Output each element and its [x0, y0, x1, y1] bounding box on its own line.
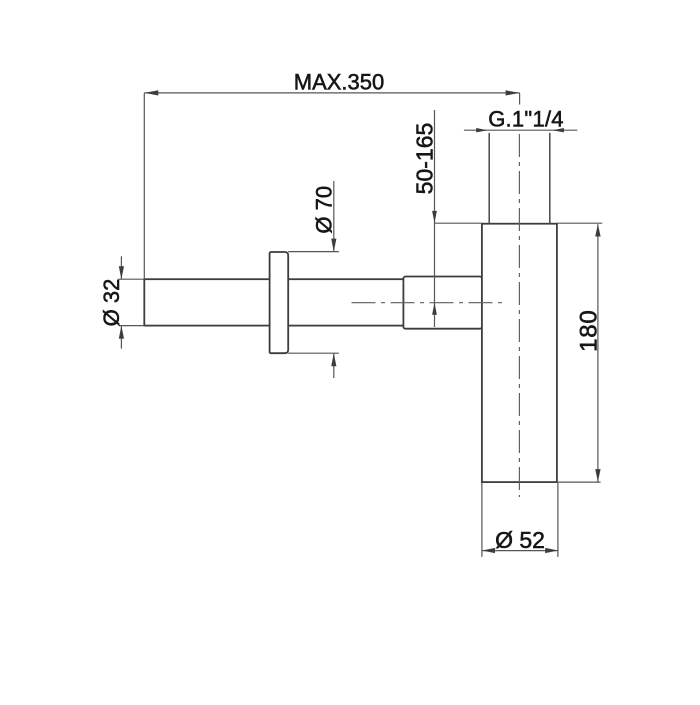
trap body cylinder	[482, 224, 557, 482]
svg-text:Ø 32: Ø 32	[99, 279, 124, 327]
wall flange (escutcheon)	[270, 252, 289, 353]
svg-text:Ø 52: Ø 52	[495, 527, 545, 553]
svg-text:180: 180	[576, 309, 603, 351]
dimension 180	[557, 223, 602, 482]
compression nut	[403, 277, 482, 329]
dimension G.1"1/4	[464, 128, 577, 132]
horizontal centerline	[352, 302, 506, 304]
vertical centerline	[518, 134, 520, 497]
dimension 50-165	[432, 110, 482, 327]
svg-text:G.1"1/4: G.1"1/4	[488, 107, 564, 132]
svg-text:MAX.350: MAX.350	[294, 70, 385, 95]
vertical tailpipe G1 1/4	[488, 133, 490, 224]
horizontal inlet pipe Ø32	[144, 279, 403, 325]
dimension O52	[482, 483, 558, 557]
svg-text:50-165: 50-165	[411, 123, 437, 195]
dimension MAX.350	[144, 90, 519, 279]
dimension O70	[288, 181, 339, 378]
svg-text:Ø 70: Ø 70	[312, 186, 337, 234]
dimension O32	[119, 256, 145, 348]
